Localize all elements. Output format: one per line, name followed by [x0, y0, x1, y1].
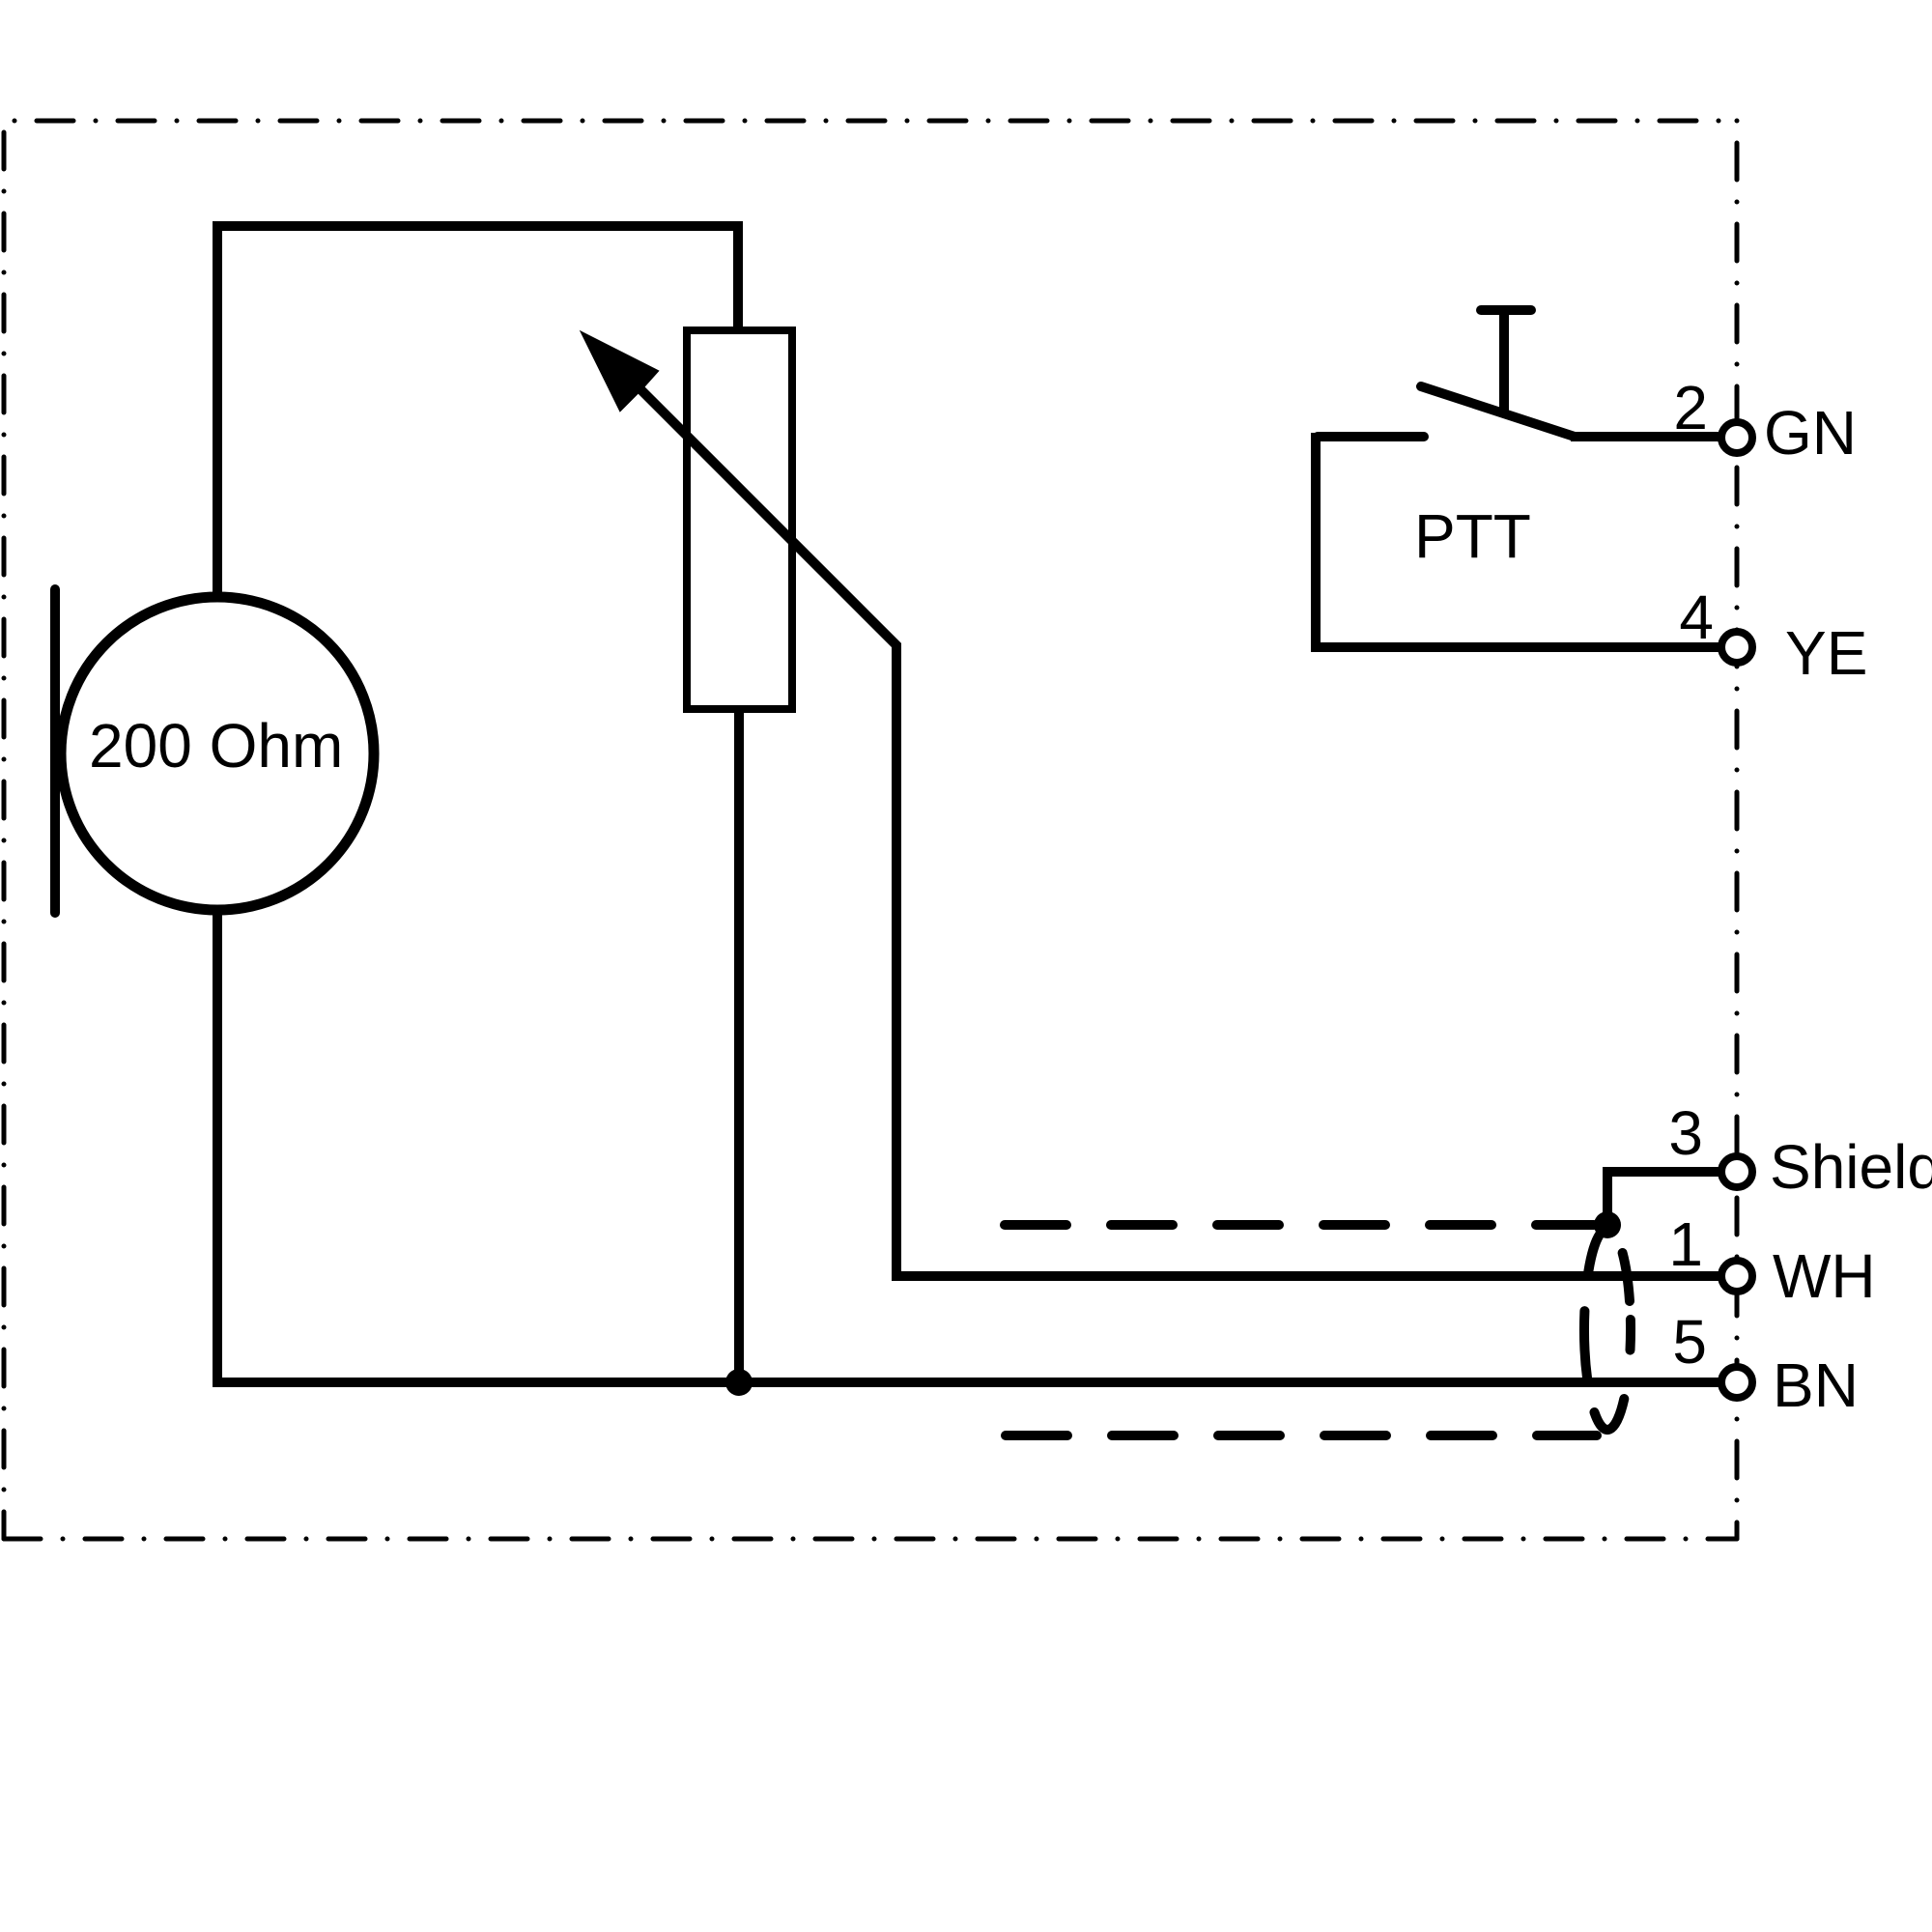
svg-text:YE: YE	[1785, 618, 1867, 688]
junction dot on BN wire	[725, 1369, 753, 1396]
terminal pin 5	[1721, 1367, 1752, 1398]
microphone plate	[50, 589, 60, 913]
svg-text:5: 5	[1672, 1307, 1707, 1377]
enclosure border right / connector boundary line	[1735, 121, 1740, 1539]
PTT wire left and to YE terminal	[1316, 433, 1719, 647]
enclosure border top	[4, 119, 1737, 124]
svg-text:2: 2	[1673, 373, 1708, 442]
resistor R1 body	[687, 330, 792, 709]
microphone capsule 200 Ohm	[61, 597, 374, 910]
cable shield dashed line upper	[1005, 1220, 1594, 1230]
wiper arrowhead	[582, 332, 658, 411]
PTT wire arm to GN terminal	[1571, 432, 1719, 441]
svg-text:4: 4	[1679, 582, 1714, 652]
PTT switch fixed contact	[1318, 432, 1424, 441]
terminal pin 2	[1721, 422, 1752, 453]
enclosure border bottom	[4, 1537, 1737, 1542]
terminal pin 4	[1721, 632, 1752, 663]
svg-text:BN: BN	[1773, 1350, 1859, 1420]
wire top loop (mic top to resistor top)	[217, 226, 738, 597]
wire shield to pin 3	[1607, 1172, 1719, 1225]
svg-text:1: 1	[1668, 1209, 1703, 1279]
svg-text:PTT: PTT	[1414, 501, 1531, 571]
terminal pin 1	[1721, 1261, 1752, 1292]
svg-text:WH: WH	[1773, 1241, 1876, 1311]
wire mic bottom to BN terminal	[217, 913, 1719, 1382]
svg-text:Shield: Shield	[1770, 1132, 1932, 1202]
PTT plunger cap	[1481, 305, 1531, 315]
cable shield dashed line lower	[1006, 1431, 1597, 1440]
wiper wire to WH terminal	[639, 387, 1719, 1276]
terminal pin 3	[1721, 1156, 1752, 1187]
PTT switch arm	[1421, 386, 1575, 437]
svg-text:GN: GN	[1764, 398, 1857, 468]
cable shield ellipse	[1584, 1232, 1631, 1430]
wire resistor bottom	[734, 705, 744, 1382]
svg-text:3: 3	[1668, 1098, 1703, 1168]
enclosure border left	[2, 121, 7, 1539]
PTT plunger	[1499, 310, 1509, 412]
junction dot on shield	[1594, 1211, 1621, 1238]
svg-text:200 Ohm: 200 Ohm	[89, 711, 343, 781]
